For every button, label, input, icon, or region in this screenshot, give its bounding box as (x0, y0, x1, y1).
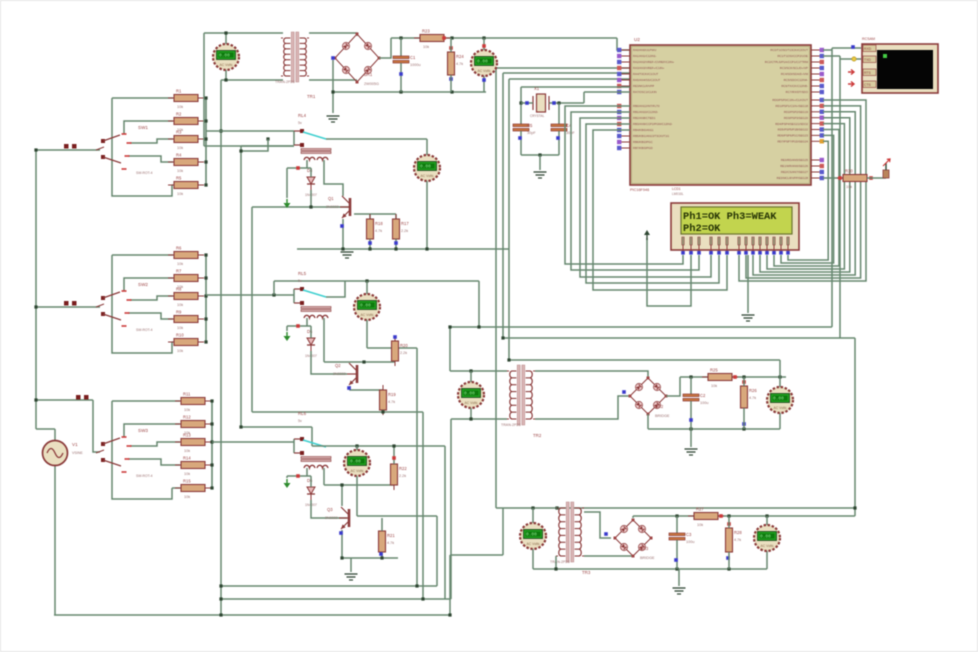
svg-text:SW-ROT-4: SW-ROT-4 (136, 474, 153, 478)
resistor R25 (702, 368, 738, 389)
wire R17 top stub (395, 214, 397, 219)
junction (224, 78, 227, 81)
wire meter8 bottom stub (766, 551, 768, 569)
junction (204, 96, 207, 99)
junction (469, 369, 472, 372)
wire stage2 jog x274 (273, 281, 275, 295)
AC source V1 (43, 441, 84, 466)
node Q1 emitter pin (340, 224, 344, 228)
junction (399, 36, 402, 39)
svg-text:5v: 5v (298, 419, 302, 423)
svg-text:RTS: RTS (864, 71, 871, 75)
svg-text:RC5/SDO/C12IN4-: RC5/SDO/C12IN4- (784, 78, 808, 82)
wire TR2 to BR2 top (535, 371, 648, 378)
wire meter4 bottom link (367, 347, 417, 349)
wire TXD link (840, 58, 861, 60)
wire rail y569 (533, 568, 767, 570)
junction (557, 101, 560, 104)
resistor R22 (391, 459, 408, 490)
wire LCD ground stem (747, 255, 749, 313)
svg-text:10k: 10k (177, 303, 183, 307)
wire meter6 top stub (470, 371, 472, 382)
svg-text:SW3: SW3 (138, 428, 148, 433)
wire LCD control bundle (571, 112, 699, 270)
junction (727, 514, 730, 517)
svg-text:4.7k: 4.7k (749, 396, 756, 400)
svg-text:BRIDGE: BRIDGE (640, 556, 655, 560)
wire vertical x855 (854, 338, 856, 516)
wire X1 right lead (549, 102, 559, 104)
junction (501, 336, 504, 339)
wire LCD data bundle (788, 141, 828, 260)
junction (689, 427, 692, 430)
wire coil2 left link (287, 325, 311, 327)
wire C3 top stub (676, 516, 678, 533)
svg-text:4.7k: 4.7k (734, 538, 741, 542)
wire SW3 out y442 (212, 441, 294, 443)
wire U2 RX link (823, 55, 840, 57)
resistor R30 (837, 169, 873, 190)
wire R18 top stub (369, 214, 371, 219)
wire TR1 return vertical x221 (220, 80, 222, 615)
svg-text:2W005G: 2W005G (364, 82, 379, 86)
junction (219, 584, 222, 587)
wire vertical x496 (495, 68, 497, 508)
wire TR1 to BR1 top (309, 33, 357, 36)
svg-text:RA1/AN1/C12IN1-: RA1/AN1/C12IN1- (633, 54, 657, 58)
junction (853, 506, 856, 509)
svg-text:R7: R7 (176, 269, 182, 274)
svg-text:RC3/SCK/SCL/D+/VP: RC3/SCK/SCL/D+/VP (780, 66, 808, 70)
wire to U2 OSC2 (584, 91, 630, 93)
junction (210, 422, 213, 425)
wire Q1 base line (252, 206, 349, 208)
svg-text:R1: R1 (176, 89, 182, 94)
relay coil RL5 (301, 307, 331, 319)
wire LCD data bundle (760, 118, 850, 272)
wire long y508 (496, 507, 855, 509)
wire R28 top stub (728, 516, 730, 528)
svg-text:4.7k: 4.7k (387, 541, 394, 545)
wire SW2 out y295 (206, 294, 294, 296)
svg-text:10k: 10k (184, 449, 190, 453)
ground stage3 (345, 574, 358, 580)
svg-text:2.2k: 2.2k (401, 229, 408, 233)
junction (554, 567, 557, 570)
wire R18 bottom stub (369, 239, 371, 249)
junction (448, 613, 451, 616)
wire C2 bottom stub (690, 401, 692, 429)
bridge rectifier BR2 (629, 377, 671, 419)
junction (421, 597, 424, 600)
junction (204, 160, 207, 163)
wire C2 top stub (690, 377, 692, 394)
junction (355, 444, 358, 447)
junction (381, 410, 384, 413)
resistor R14 (175, 456, 211, 477)
resistor R28 (726, 523, 743, 557)
voltmeter PV5 (344, 450, 370, 476)
resistor R26 (741, 381, 758, 413)
svg-text:RB6/KBI2/PGC: RB6/KBI2/PGC (633, 140, 653, 144)
wire meter9 bottom stub (779, 413, 781, 429)
svg-text:10k: 10k (846, 185, 852, 189)
junction (219, 613, 222, 616)
junction (272, 293, 275, 296)
wire LCD control bundle (586, 124, 719, 283)
svg-text:R3: R3 (176, 130, 182, 135)
ground stage1 (341, 252, 354, 258)
wire vertical x252 (251, 207, 253, 412)
wire meter6 bottom stub (470, 408, 472, 419)
resistor R19 (380, 385, 397, 415)
wire stage1 rail y249 (297, 248, 509, 250)
wire Q2 emitter link (350, 386, 383, 390)
junction (555, 506, 558, 509)
wire D5 top stub (310, 326, 312, 338)
wire long y360 (509, 359, 780, 361)
wire R21 bottom stub (381, 552, 383, 558)
svg-text:Q3: Q3 (327, 507, 333, 512)
svg-text:R2: R2 (176, 112, 182, 117)
junction (210, 463, 213, 466)
svg-text:R28: R28 (734, 530, 742, 535)
wire BR3 top up (632, 516, 634, 518)
svg-text:0.00: 0.00 (760, 534, 771, 540)
svg-text:CRYSTAL: CRYSTAL (530, 114, 545, 118)
svg-text:AC Volts: AC Volts (350, 469, 363, 473)
wire meter1 top stub (225, 33, 227, 44)
wire collector node y485 (324, 484, 394, 486)
wire SW3 feed drop (93, 400, 100, 452)
svg-text:RA0/AN0/ULPWU: RA0/AN0/ULPWU (633, 48, 656, 52)
wire meter7 bottom stub (532, 549, 534, 569)
wire coil2 left lead (306, 318, 308, 326)
svg-text:R22: R22 (399, 466, 407, 471)
svg-text:10k: 10k (697, 523, 703, 527)
wire C4 top (558, 103, 560, 124)
junction (469, 417, 472, 420)
wire X1 to x584 (559, 102, 584, 104)
svg-text:2N2222: 2N2222 (333, 372, 346, 376)
wire meter3 top stub (426, 139, 428, 155)
wire bottom rail y586 (221, 585, 437, 587)
wire top rail y38 (391, 37, 617, 39)
svg-text:RC2/CTPLS/P1A/CCP1/C1TTRM: RC2/CTPLS/P1A/CCP1/C1TTRM (765, 60, 809, 64)
svg-text:RL4: RL4 (298, 113, 307, 118)
ground terminal stage1 (284, 199, 291, 208)
junction (204, 340, 207, 343)
wire stage3 rail y558 (341, 557, 398, 559)
junction (219, 597, 222, 600)
wire meter3 bottom (426, 181, 428, 249)
wire TR2 primary bottom (451, 418, 507, 420)
wire to U2 RA0 (617, 38, 630, 50)
wire D4 top stub (310, 168, 312, 177)
junction (399, 90, 402, 93)
diode D6 (305, 478, 317, 507)
node R30 pins (838, 176, 842, 180)
wire vertical x479 (478, 281, 480, 327)
capacitor C3 (669, 532, 694, 544)
svg-text:R20: R20 (400, 343, 408, 348)
svg-text:CTS: CTS (864, 83, 872, 87)
svg-text:RB0/AN12/INT/FLT0: RB0/AN12/INT/FLT0 (633, 104, 660, 108)
node C1 pin (399, 72, 403, 76)
junction (34, 305, 37, 308)
svg-text:2N2222: 2N2222 (325, 516, 338, 520)
svg-text:RB3/AN9/CCP2/PGM/C12IN2-: RB3/AN9/CCP2/PGM/C12IN2- (633, 122, 673, 126)
node meter2 pins (482, 44, 486, 48)
wire meter7 top stub (532, 508, 534, 523)
wire TR2 to BR2 left (535, 396, 629, 419)
wire R26 top stub (743, 377, 745, 386)
capacitor C4 (551, 123, 575, 135)
wire to ground arrow 1 (286, 168, 288, 198)
wire long y338 (503, 337, 855, 339)
diode D5 (305, 329, 317, 358)
wire TR3 to BR3 left (584, 512, 611, 538)
wire stage3 out y446 (312, 445, 445, 447)
wire TR1 to BR1 bottom (309, 79, 357, 81)
wire stage2 line y281 (274, 280, 479, 282)
resistor R2 (168, 112, 204, 133)
wire meter2 top stub (483, 38, 485, 50)
transistor Q3 (325, 507, 349, 529)
junction (507, 358, 510, 361)
node R18 R17 pins (368, 241, 372, 245)
wire crystal y87 (521, 86, 630, 88)
wire R19 bottom stub (382, 410, 384, 412)
ground TR3 stage (673, 588, 686, 594)
svg-text:2.2k: 2.2k (399, 474, 406, 478)
ground under BR1 (327, 116, 340, 122)
junction (204, 253, 207, 256)
wire D6 top stub (310, 476, 312, 487)
svg-text:LM016L: LM016L (672, 192, 684, 196)
svg-text:RE2/CS/AN7/SEG27: RE2/CS/AN7/SEG27 (781, 170, 808, 174)
svg-text:U2: U2 (634, 37, 640, 42)
svg-text:AC Volts: AC Volts (760, 544, 773, 548)
wire rail y92 (333, 91, 486, 93)
junction (239, 149, 242, 152)
voltmeter PV4 (354, 294, 380, 320)
svg-text:R14: R14 (183, 456, 191, 461)
wire rail y377 (680, 376, 786, 378)
wire Q3 emitter down (341, 530, 343, 558)
transformer TR3 (550, 502, 591, 575)
wire rail y429 (648, 428, 780, 430)
wire R17 bottom stub (395, 239, 397, 249)
wire to ground arrow 2 (286, 326, 288, 331)
resistor R15 (175, 479, 211, 500)
transformer TR2 (501, 365, 542, 438)
virtual terminal (862, 37, 938, 93)
relay coil RL6 (301, 457, 331, 469)
wire crystal ground stem (539, 155, 541, 170)
switch block SW3 (96, 401, 213, 499)
wire meter5 bottom link (357, 515, 437, 517)
wire TR3 top lead (556, 507, 557, 509)
resistor R11 (175, 392, 211, 413)
junction (210, 399, 213, 402)
wire U2 TX link (823, 49, 832, 51)
svg-text:R13: R13 (183, 433, 191, 438)
wire TR3 to BR3 bottom (584, 555, 633, 557)
svg-text:0.00: 0.00 (477, 59, 488, 65)
junction (482, 36, 485, 39)
junction (425, 247, 428, 250)
resistor R3 (168, 130, 204, 151)
junction (331, 90, 334, 93)
transistor Q2 (333, 363, 357, 385)
svg-text:1000u: 1000u (410, 63, 421, 67)
voltmeter PV8 (520, 523, 546, 549)
node R23 pin (442, 36, 446, 40)
svg-text:RA5/AN4/SS/C2OUT: RA5/AN4/SS/C2OUT (633, 78, 661, 82)
node R28 pins (727, 522, 731, 526)
wire coil3 left link (287, 475, 311, 477)
svg-text:10k: 10k (711, 384, 717, 388)
wire crystal left vertical (520, 87, 522, 124)
wire LCD VDD path (647, 238, 691, 306)
node Q2 emitter pin (347, 386, 351, 390)
svg-text:RB4/KBI0/AN11: RB4/KBI0/AN11 (633, 128, 654, 132)
resistor R17 (393, 214, 410, 244)
svg-text:TRAN-2P2S: TRAN-2P2S (275, 80, 295, 84)
svg-text:0.00: 0.00 (464, 391, 475, 397)
svg-text:D6: D6 (307, 478, 313, 483)
wire meter4 top stub (366, 281, 368, 294)
node terminal pins (851, 45, 855, 49)
wire LCD control bundle (565, 106, 683, 264)
junction (34, 398, 37, 401)
svg-text:R15: R15 (183, 479, 191, 484)
diode D4 (305, 168, 317, 197)
wire ground stem TR2 (690, 429, 692, 447)
junction (204, 317, 207, 320)
svg-text:10k: 10k (177, 169, 183, 173)
capacitor C1 (393, 55, 421, 67)
wire LCD data bundle (753, 112, 855, 275)
junction (380, 556, 383, 559)
junction (477, 325, 480, 328)
junction (448, 325, 451, 328)
svg-text:RC6/TX/CK/C12IN5-: RC6/TX/CK/C12IN5- (781, 84, 808, 88)
wire left vertical bus x36 (35, 150, 37, 429)
junction (415, 584, 418, 587)
node R22 top pin (392, 456, 396, 460)
svg-text:RE3/MCLR/VPP/SEG28: RE3/MCLR/VPP/SEG28 (777, 176, 809, 180)
resistor R12 (175, 415, 211, 436)
wire bottom rail y615 (54, 614, 450, 616)
voltmeter PV7 (767, 387, 793, 413)
junction (727, 567, 730, 570)
svg-text:X1: X1 (534, 86, 540, 91)
svg-text:LCD1: LCD1 (672, 187, 681, 191)
wire vertical x450 low (449, 555, 451, 615)
junction (778, 375, 781, 378)
wire TR2 primary top (450, 370, 507, 372)
svg-text:2N2222: 2N2222 (326, 205, 339, 209)
wire emitter to resistors (354, 213, 396, 215)
resistor R10 (168, 333, 204, 354)
wire meter1 bottom stub (225, 70, 227, 80)
wire BR2 out (666, 377, 680, 396)
junction (266, 137, 269, 140)
svg-text:SW-ROT-4: SW-ROT-4 (136, 328, 153, 332)
svg-text:AC Volts: AC Volts (464, 401, 477, 405)
junction (204, 276, 207, 279)
junction (204, 119, 207, 122)
junction (340, 556, 343, 559)
junction (365, 279, 368, 282)
wire D5 to Q2 base (311, 351, 347, 374)
svg-text:BR3: BR3 (640, 546, 649, 551)
node BR1 minus pin (331, 56, 335, 60)
node R24 pins (449, 46, 453, 50)
node coil3 pin (296, 474, 300, 478)
wire SW3 feed top (36, 399, 93, 401)
wire vertical x437 (436, 516, 438, 586)
svg-text:0.00: 0.00 (420, 164, 431, 170)
wire x268 jog (241, 139, 268, 151)
svg-text:R30: R30 (845, 169, 853, 174)
wire coil1 to Q1 collector (324, 160, 343, 196)
wire LCD data bundle (774, 130, 839, 267)
wire stage1 contact2 link (241, 145, 294, 147)
wire meter5 top stub (356, 446, 358, 450)
wire R28 bottom stub (728, 552, 730, 569)
svg-text:SW1: SW1 (138, 125, 148, 130)
svg-text:5v: 5v (298, 279, 302, 283)
node C2 pin (689, 418, 693, 422)
wire ground stem TR3 (678, 569, 680, 586)
wire SW1 out y131 (206, 130, 294, 132)
junction (450, 90, 453, 93)
wire terminal RXD vertical x832 (831, 48, 833, 327)
wire contact T (293, 289, 295, 303)
wire to ground arrow 3 (286, 476, 288, 478)
junction (219, 129, 222, 132)
junction (368, 247, 371, 250)
transistor Q1 (326, 196, 350, 218)
wire R24 bottom stub (450, 75, 452, 92)
resistor R8 (168, 287, 204, 308)
svg-text:R10: R10 (176, 333, 184, 338)
wire U2 RA3 line y68 (496, 67, 630, 69)
resistor R18 (367, 214, 384, 244)
svg-text:TRAN-2P2S: TRAN-2P2S (550, 560, 570, 564)
ground LCD (742, 315, 755, 321)
voltmeter PV6 (458, 382, 484, 408)
svg-text:RB5/KBI1/AN13/T3CKI/T1G: RB5/KBI1/AN13/T3CKI/T1G (633, 134, 670, 138)
wire X1 left lead (521, 102, 533, 104)
wire y555 link (450, 554, 503, 556)
svg-text:BR2: BR2 (655, 404, 664, 409)
resistor R23 (414, 29, 450, 50)
svg-text:RD0/PSP0/C1IN+/CLKOUT: RD0/PSP0/C1IN+/CLKOUT (772, 98, 808, 102)
svg-text:10k: 10k (423, 45, 429, 49)
junction (450, 36, 453, 39)
resistor R9 (168, 310, 204, 331)
svg-text:4.7k: 4.7k (375, 229, 382, 233)
svg-text:R11: R11 (183, 392, 191, 397)
svg-text:RC4/SDI/SDA/D-/VM: RC4/SDI/SDA/D-/VM (781, 72, 809, 76)
svg-text:RA7/OSC1/CLKIN: RA7/OSC1/CLKIN (633, 90, 657, 94)
svg-text:AC Volts: AC Volts (360, 313, 373, 317)
svg-text:RB7/KBI3/PGD: RB7/KBI3/PGD (633, 146, 653, 150)
